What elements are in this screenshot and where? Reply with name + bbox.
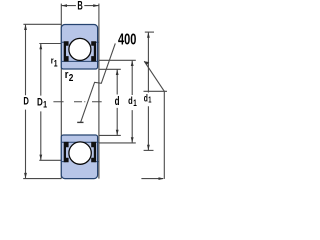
bearing side faces [61,25,99,179]
ball (top) [69,38,91,60]
right vertical extension [163,91,165,179]
d top arrow [116,69,119,75]
D1 bottom arrow [39,155,42,161]
svg-text:D: D [37,97,43,109]
svg-text:1: 1 [148,96,152,105]
d1 top arrow [131,60,134,66]
svg-text:1: 1 [133,98,137,108]
d1 bottom extension [99,142,136,144]
right d1 bottom tick [144,149,154,151]
d1 dimension line [131,60,133,143]
svg-text:1: 1 [43,99,47,109]
d dimension line [116,69,118,135]
bottom right arrow [159,177,165,180]
slant arrow [144,61,149,65]
ring section (bottom) [61,135,97,179]
slanted extension [144,61,164,91]
leader T-bar [77,121,83,123]
d bottom arrow [116,130,119,136]
svg-text:400: 400 [118,31,136,48]
right d1 bottom arrow [147,145,150,151]
d top extension [99,68,121,70]
svg-text:d: d [128,96,133,107]
svg-text:d: d [115,96,120,108]
D bottom arrow [24,173,27,179]
svg-text:1: 1 [54,58,58,68]
D dimension line [25,24,27,178]
leader 400 [81,43,116,122]
svg-text:2: 2 [69,73,74,84]
shoulder lines bottom section [62,142,99,161]
shield right top [91,41,96,61]
D1 dimension line [40,44,42,161]
d bottom extension [99,134,121,136]
d1 bottom arrow [131,137,134,143]
svg-text:B: B [77,1,82,13]
shield right bottom [91,142,96,162]
B extension line right [98,4,100,25]
right d1 top tick [145,31,154,33]
right d1 top arrow [147,32,150,38]
B right arrow [93,4,99,7]
svg-text:D: D [23,96,29,108]
D top extension [23,23,61,25]
D top arrow [24,24,27,30]
centerline [53,101,101,103]
arrowheads [24,4,164,180]
outer+inner ring section (top) [61,25,97,70]
D1 top arrow [39,44,42,50]
bottom right dimension line [141,178,163,180]
shield left bottom [64,142,69,162]
d1 top extension [99,59,136,61]
D1 top extension [39,43,61,45]
right d1 dimension line [147,32,149,150]
D1 bottom extension [39,159,61,161]
horizontal tick at slant base [144,90,168,92]
D bottom extension [23,178,61,180]
ball (bottom) [69,142,91,164]
B dimension line [61,5,99,7]
shoulder lines top section [62,42,99,61]
shield left top [64,41,69,61]
B left arrow [61,4,67,7]
B extension line left [60,4,62,25]
